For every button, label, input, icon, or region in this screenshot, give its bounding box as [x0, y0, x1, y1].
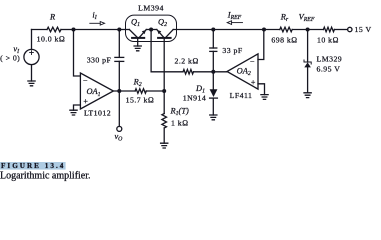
wire (OA1 output)	[113, 90, 135, 92]
node A (summing junction dot)	[72, 28, 76, 32]
diode D1	[210, 72, 218, 115]
wire (OA2 inverting input up to IREF node)	[258, 30, 264, 60]
terminal 15 V (open circle)	[348, 27, 352, 31]
transistor Q1	[129, 30, 146, 47]
current arrow iI	[90, 22, 105, 26]
wire (2.2k to OA2 output)	[194, 71, 228, 73]
zener diode LM329	[304, 30, 311, 93]
wire (698k to VREF node)	[292, 29, 323, 31]
wire (Q2 collector to 698k)	[173, 29, 280, 31]
svg-text:33 pF: 33 pF	[222, 46, 242, 55]
svg-text:LT1012: LT1012	[84, 109, 111, 118]
source vI	[24, 30, 39, 82]
svg-text:+: +	[83, 97, 88, 106]
svg-text:10 kΩ: 10 kΩ	[317, 36, 339, 45]
svg-text:10.0 kΩ: 10.0 kΩ	[37, 35, 66, 44]
wire (R2 to divider tap)	[146, 90, 164, 92]
node (330 pF / Q1 collector junction dot)	[117, 28, 121, 32]
capacitor 33 pF (OA2 feedback)	[210, 30, 217, 72]
svg-text:LM329: LM329	[317, 55, 343, 64]
resistor R1 (T)	[162, 91, 167, 143]
svg-text:2.2 kΩ: 2.2 kΩ	[175, 57, 199, 66]
svg-text:330 pF: 330 pF	[87, 56, 112, 65]
svg-text:+: +	[251, 78, 256, 87]
wire (vI to R)	[32, 29, 48, 31]
wire (node A to 330pF node)	[74, 29, 120, 31]
svg-text:LM394: LM394	[138, 4, 164, 13]
wire (10k to 15V terminal)	[334, 29, 347, 31]
LM394 package outline	[126, 15, 177, 41]
svg-text:−: −	[250, 57, 255, 66]
ground (below R1)	[161, 143, 168, 148]
ground (below LM329)	[304, 93, 311, 98]
wire (down to vO terminal)	[118, 91, 120, 126]
node (OA2 inverting input junction dot)	[262, 28, 266, 32]
wire (node to Q1 collector)	[119, 29, 129, 31]
wire (OA1 noninverting input to ground)	[74, 105, 81, 110]
wire (R to node A)	[61, 29, 74, 31]
node (R2/R1 divider tap dot)	[162, 89, 166, 93]
transistor Q2	[157, 30, 173, 92]
svg-text:−: −	[83, 76, 88, 85]
ground (below D1)	[210, 115, 217, 120]
resistor R	[47, 27, 61, 32]
svg-text:Logarithmic amplifier.: Logarithmic amplifier.	[0, 171, 91, 182]
resistor R2	[135, 89, 146, 94]
caption highlight	[0, 162, 66, 170]
resistor 10 k	[323, 27, 334, 32]
wire (node A down to OA1 inverting input)	[74, 30, 81, 77]
node vO junction dot	[117, 89, 121, 93]
op-amp OA2	[227, 54, 258, 89]
node (common emitter junction dot)	[149, 28, 153, 32]
svg-text:6.95 V: 6.95 V	[317, 64, 341, 73]
wire (common emitters down and right to 2.2k)	[151, 30, 183, 72]
node VREF junction dot	[306, 28, 310, 32]
node (33pF top junction dot)	[211, 28, 215, 32]
terminal vO (open circle)	[117, 126, 122, 131]
node (OA2 output / D1 / 33pF junction dot)	[211, 70, 215, 74]
svg-text:LF411: LF411	[230, 91, 253, 100]
ground (OA2 noninverting input)	[261, 95, 268, 100]
svg-text:R: R	[49, 13, 55, 22]
op-amp OA1	[80, 73, 113, 109]
svg-text:15.7 kΩ: 15.7 kΩ	[126, 96, 155, 105]
svg-text:1N914: 1N914	[183, 94, 206, 103]
ground (Q1 base)	[134, 46, 141, 51]
wire (common emitters segment)	[146, 29, 157, 31]
wire (OA2 noninverting input to ground)	[258, 84, 265, 95]
resistor Rr 698 k	[280, 27, 292, 32]
capacitor 330 pF (feedback)	[115, 30, 124, 92]
resistor 2.2 k (emitter degeneration)	[183, 70, 194, 75]
svg-text:( > 0): ( > 0)	[0, 54, 20, 63]
svg-text:698 kΩ: 698 kΩ	[271, 36, 297, 45]
current arrow IREF	[227, 21, 242, 25]
svg-text:1 kΩ: 1 kΩ	[171, 119, 189, 128]
ground (below vI source)	[28, 81, 35, 86]
ground (OA1 noninverting input)	[70, 110, 77, 115]
svg-text:FIGURE 13.4: FIGURE 13.4	[1, 162, 65, 170]
svg-text:15 V: 15 V	[355, 25, 372, 34]
